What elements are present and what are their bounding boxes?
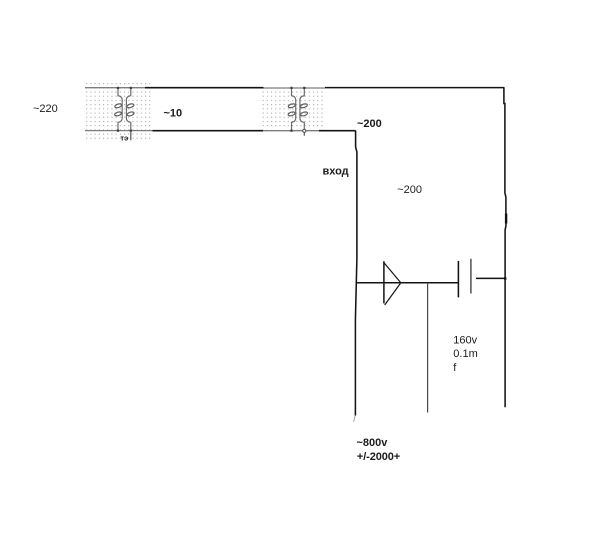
- wire: top black segment T1 to T2: [145, 87, 264, 89]
- svg-text:~10: ~10: [164, 108, 183, 120]
- selection dot background T1: [85, 82, 152, 142]
- svg-text:+/-2000+: +/-2000+: [357, 451, 400, 463]
- transformer T3 right winding stem: [300, 88, 304, 131]
- transformer T1 terminal dots: [117, 87, 132, 132]
- svg-text:~800v: ~800v: [357, 437, 389, 449]
- transformer T1 bottom tail: [130, 131, 132, 141]
- transformer T1 left winding loop 2: [114, 111, 122, 116]
- diode D1 lower slant: [385, 283, 401, 305]
- wire: right vertical thick blob: [505, 214, 507, 224]
- svg-text:160v: 160v: [453, 335, 477, 347]
- capacitor C1 left plate: [457, 261, 459, 298]
- wire: capacitor to right vertical: [476, 277, 505, 279]
- wire: middle horizontal (diode row): [357, 282, 458, 284]
- transformer T3 left winding loop 1: [288, 103, 296, 108]
- transformer T3 right winding loop 2: [300, 111, 308, 116]
- wire: middle vertical below diode row: [427, 283, 429, 413]
- transformer T1 right winding stem: [126, 88, 130, 131]
- wire: bottom gray segment through T2: [263, 130, 319, 132]
- wire: top gray segment through T2: [264, 87, 326, 89]
- transformer T1 right winding loop 2: [127, 111, 135, 116]
- transformer T3 left winding stem: [292, 88, 296, 131]
- svg-text:~200: ~200: [357, 118, 382, 130]
- transformer T1 right winding loop 1: [126, 103, 134, 108]
- wire: right vertical drop: [504, 87, 506, 407]
- transformer T3 bottom open terminal circle: [303, 129, 306, 132]
- diode D1 upper slant: [384, 263, 401, 283]
- wire: bottom black segment T2 to corner: [319, 130, 356, 132]
- svg-text:тэ: тэ: [120, 134, 128, 143]
- diode D1 cathode-side vertical bar: [383, 261, 385, 303]
- svg-text:~220: ~220: [33, 103, 58, 115]
- wire: bottom left gray segment into T1: [85, 130, 153, 132]
- wire: top black segment T2 to right corner: [325, 87, 504, 89]
- wire: small gray tail below left vertical: [354, 416, 356, 422]
- wire: left vertical (вход line): [355, 131, 357, 416]
- wire: top left gray segment into T1: [85, 87, 145, 89]
- transformer T1 left winding loop 1: [114, 103, 122, 108]
- transformer T3 left winding loop 2: [288, 111, 296, 116]
- capacitor C1 right plate: [470, 259, 472, 294]
- svg-text:вход: вход: [323, 165, 349, 177]
- svg-text:0.1m: 0.1m: [453, 348, 477, 360]
- transformer T3 bottom tail: [303, 133, 305, 136]
- transformer T1 left winding stem: [118, 88, 122, 131]
- transformer T3 right winding loop 1: [300, 103, 308, 108]
- svg-text:~200: ~200: [397, 184, 422, 196]
- selection dot background T2: [260, 90, 325, 130]
- transformer T3 terminal dots: [290, 87, 305, 132]
- wire: bottom black segment T1 to T2: [153, 130, 264, 132]
- junction dot at right vertical: [504, 277, 506, 279]
